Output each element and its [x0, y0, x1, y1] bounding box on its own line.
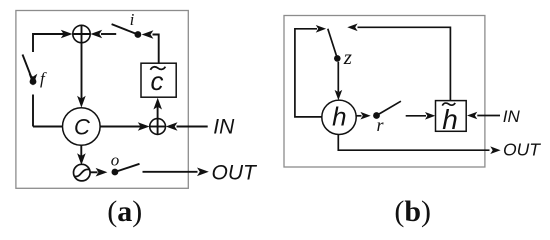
svg-text:(a): (a): [107, 195, 142, 228]
switch z lever: [328, 29, 338, 59]
node h (hidden state circle): [322, 100, 356, 134]
frame of subfigure (b): [284, 16, 485, 168]
node C (cell state circle): [63, 108, 101, 146]
wire z down into h (arrow down): [335, 62, 343, 100]
wire r to h-tilde box (arrow right): [406, 112, 436, 120]
svg-text:h: h: [442, 104, 458, 135]
svg-text:r: r: [377, 115, 385, 135]
svg-text:c: c: [151, 66, 164, 96]
wire bottom-left corner to node C: [33, 126, 63, 128]
svg-text:z: z: [343, 45, 352, 69]
wire IN into add2 (arrow left): [166, 122, 208, 131]
svg-text:C: C: [74, 114, 90, 139]
svg-text:IN: IN: [213, 115, 235, 138]
wire add2 up into c-tilde box (arrow up): [153, 98, 162, 119]
svg-text:(b): (b): [394, 195, 431, 228]
svg-text:f: f: [40, 69, 47, 88]
wire add1 down into C (arrow down): [77, 43, 86, 108]
svg-text:o: o: [111, 150, 120, 169]
node squash (circle with S-curve): [74, 164, 91, 181]
svg-text:OUT: OUT: [212, 161, 259, 184]
wire c-tilde top to switch i (arrow left): [142, 30, 159, 63]
wire squash to switch o (arrow right): [90, 168, 107, 177]
switch r lever: [377, 101, 401, 115]
svg-text:IN: IN: [503, 107, 521, 126]
wire h bottom to OUT (b) (arrow right): [338, 134, 500, 154]
switch i contact dot: [135, 31, 142, 38]
switch f contact dot: [30, 78, 37, 85]
wire up into f dot (arrow up): [29, 74, 38, 127]
switch o lever: [115, 164, 140, 172]
wire from f branch corner into add1 (arrow right): [33, 30, 73, 52]
wire h to switch r (arrow right): [356, 112, 371, 120]
node add2 (circled plus, right of C): [150, 119, 166, 135]
wire recurrent: h left up to switch z (arrow right): [295, 25, 326, 117]
wire C to add2 (arrow right): [100, 122, 150, 131]
wire IN into h-tilde (arrow left): [467, 112, 500, 120]
switch i lever: [112, 24, 138, 34]
wire C down into squash node (arrow down): [77, 145, 86, 165]
node add1 (circled plus, top): [73, 25, 90, 42]
switch r contact dot: [373, 112, 380, 119]
frame of subfigure (a): [16, 11, 188, 189]
switch f lever: [23, 55, 34, 82]
wire h-tilde top to switch z (arrow left): [347, 24, 450, 101]
switch o contact dot: [112, 169, 119, 176]
svg-text:h: h: [332, 101, 346, 131]
svg-text:OUT: OUT: [503, 140, 541, 160]
wire stub from add1 toward i (arrow left into add1): [90, 30, 116, 39]
box h-tilde (candidate hidden): [436, 101, 467, 135]
svg-text:i: i: [130, 10, 135, 29]
box c-tilde (candidate cell): [141, 63, 176, 97]
switch z contact dot: [334, 55, 341, 62]
wire to OUT (a) (arrow right): [143, 168, 209, 177]
